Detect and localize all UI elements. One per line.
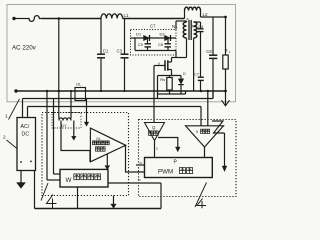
svg-text:c: c bbox=[156, 147, 158, 151]
svg-text:a: a bbox=[187, 17, 189, 21]
svg-text:L1: L1 bbox=[124, 13, 130, 18]
svg-text:2: 2 bbox=[3, 135, 6, 141]
svg-text:C1: C1 bbox=[103, 48, 109, 53]
svg-text:D: D bbox=[183, 72, 186, 76]
svg-text:DY: DY bbox=[61, 123, 67, 128]
svg-text:L2: L2 bbox=[203, 12, 209, 17]
svg-text:DC: DC bbox=[22, 132, 30, 138]
svg-text:N1: N1 bbox=[172, 24, 178, 29]
svg-text:AC/: AC/ bbox=[21, 124, 30, 130]
svg-text:C8: C8 bbox=[206, 49, 212, 54]
svg-text:X: X bbox=[196, 129, 199, 134]
svg-text:DL: DL bbox=[76, 81, 82, 86]
svg-text:W: W bbox=[66, 177, 72, 184]
svg-text:PWM: PWM bbox=[158, 169, 173, 176]
svg-text:C6: C6 bbox=[158, 42, 164, 47]
svg-text:C7: C7 bbox=[150, 24, 156, 29]
svg-text:D1: D1 bbox=[136, 31, 142, 36]
svg-text:N2: N2 bbox=[192, 23, 198, 28]
svg-text:1: 1 bbox=[5, 114, 8, 120]
svg-text:C5: C5 bbox=[138, 42, 144, 47]
svg-text:AC 220v: AC 220v bbox=[12, 45, 37, 52]
svg-text:L: L bbox=[229, 50, 231, 54]
svg-text:D2: D2 bbox=[160, 31, 166, 36]
svg-text:Q: Q bbox=[152, 125, 156, 130]
svg-text:Rs: Rs bbox=[160, 77, 165, 82]
svg-text:C7: C7 bbox=[194, 72, 200, 77]
svg-text:P: P bbox=[174, 160, 178, 166]
svg-text:a: a bbox=[140, 161, 143, 165]
svg-text:R: R bbox=[225, 48, 228, 53]
svg-text:C3: C3 bbox=[117, 48, 123, 53]
svg-text:OL: OL bbox=[96, 137, 101, 141]
